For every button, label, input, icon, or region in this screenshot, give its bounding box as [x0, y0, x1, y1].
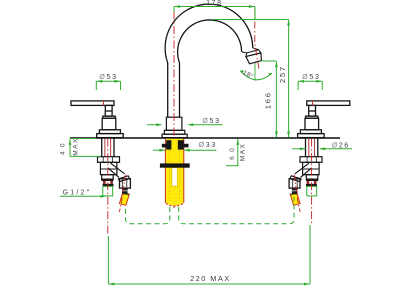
diameter 53 label spout base — [147, 118, 223, 126]
svg-text:MAX: MAX — [72, 137, 79, 155]
spout mounting hardware (black blocks) — [160, 140, 190, 168]
left handle lever — [71, 101, 123, 138]
G1/2 inlet thread label — [60, 190, 107, 198]
svg-text:G1/2": G1/2" — [63, 190, 92, 197]
dimension 220 MAX (bottom) — [108, 225, 310, 285]
svg-text:MAX: MAX — [240, 143, 247, 161]
tail neck — [122, 188, 128, 190]
spout collar — [166, 117, 182, 130]
diameter 53 label left handle — [96, 74, 120, 90]
svg-text:166: 166 — [264, 91, 273, 109]
svg-text:Ø53: Ø53 — [302, 74, 320, 81]
diameter 33 label tailpiece — [153, 142, 217, 151]
60 MAX label (spout shank depth) — [226, 139, 247, 166]
tail centerline — [119, 175, 125, 213]
left valve centerline red — [107, 139, 109, 236]
spout outer arc — [165, 4, 253, 117]
angled hose to flexible tail — [108, 163, 125, 177]
top extension line for 257 — [212, 19, 289, 21]
hose end fitting ring — [118, 176, 129, 182]
svg-text:60: 60 — [229, 144, 236, 160]
svg-text:257: 257 — [278, 65, 287, 83]
green dashed supply hoses — [126, 197, 295, 224]
outlet centerline red — [255, 8, 259, 71]
spout inner arc — [178, 20, 242, 117]
diameter 26 label right valve shaft — [292, 143, 352, 151]
svg-text:40: 40 — [60, 139, 67, 155]
40 MAX label — [60, 137, 101, 156]
spout base step — [164, 130, 184, 134]
right valve body below deck (mirrored) — [289, 139, 322, 212]
svg-text:220 MAX: 220 MAX — [190, 274, 231, 283]
yellow tail end — [119, 194, 129, 206]
svg-text:18°: 18° — [242, 68, 256, 80]
inner slot — [172, 168, 177, 187]
svg-text:178: 178 — [206, 0, 222, 7]
left valve body below deck — [98, 139, 131, 212]
deck line — [70, 137, 340, 139]
spout centerline (red) — [173, 12, 175, 210]
dimension 257 (vertical) — [278, 20, 290, 138]
right lever red tick — [312, 100, 314, 106]
left lever red tick — [102, 100, 104, 106]
right valve centerline red — [311, 139, 313, 225]
G1/2 green inlet box — [103, 186, 113, 196]
spout joint ring — [242, 48, 261, 57]
svg-text:Ø33: Ø33 — [199, 142, 217, 149]
18 degree angle arc — [240, 63, 272, 81]
svg-text:Ø53: Ø53 — [202, 118, 220, 125]
dimension 178 (top) — [174, 0, 255, 20]
spout mounting nut bar — [160, 163, 190, 167]
diameter 53 label right handle — [298, 74, 322, 90]
spout base plate — [162, 134, 187, 137]
yellow tailpiece shaft under spout — [165, 139, 183, 206]
hose end hex fitting — [120, 179, 131, 188]
aerator outlet — [246, 53, 262, 64]
right handle lever (mirrored) — [298, 101, 350, 138]
extension line for 166 at outlet mouth — [261, 60, 276, 62]
svg-text:Ø53: Ø53 — [99, 74, 117, 81]
lower stack black bands + red marks — [101, 179, 113, 181]
dimension 166 (vertical) — [264, 61, 278, 137]
